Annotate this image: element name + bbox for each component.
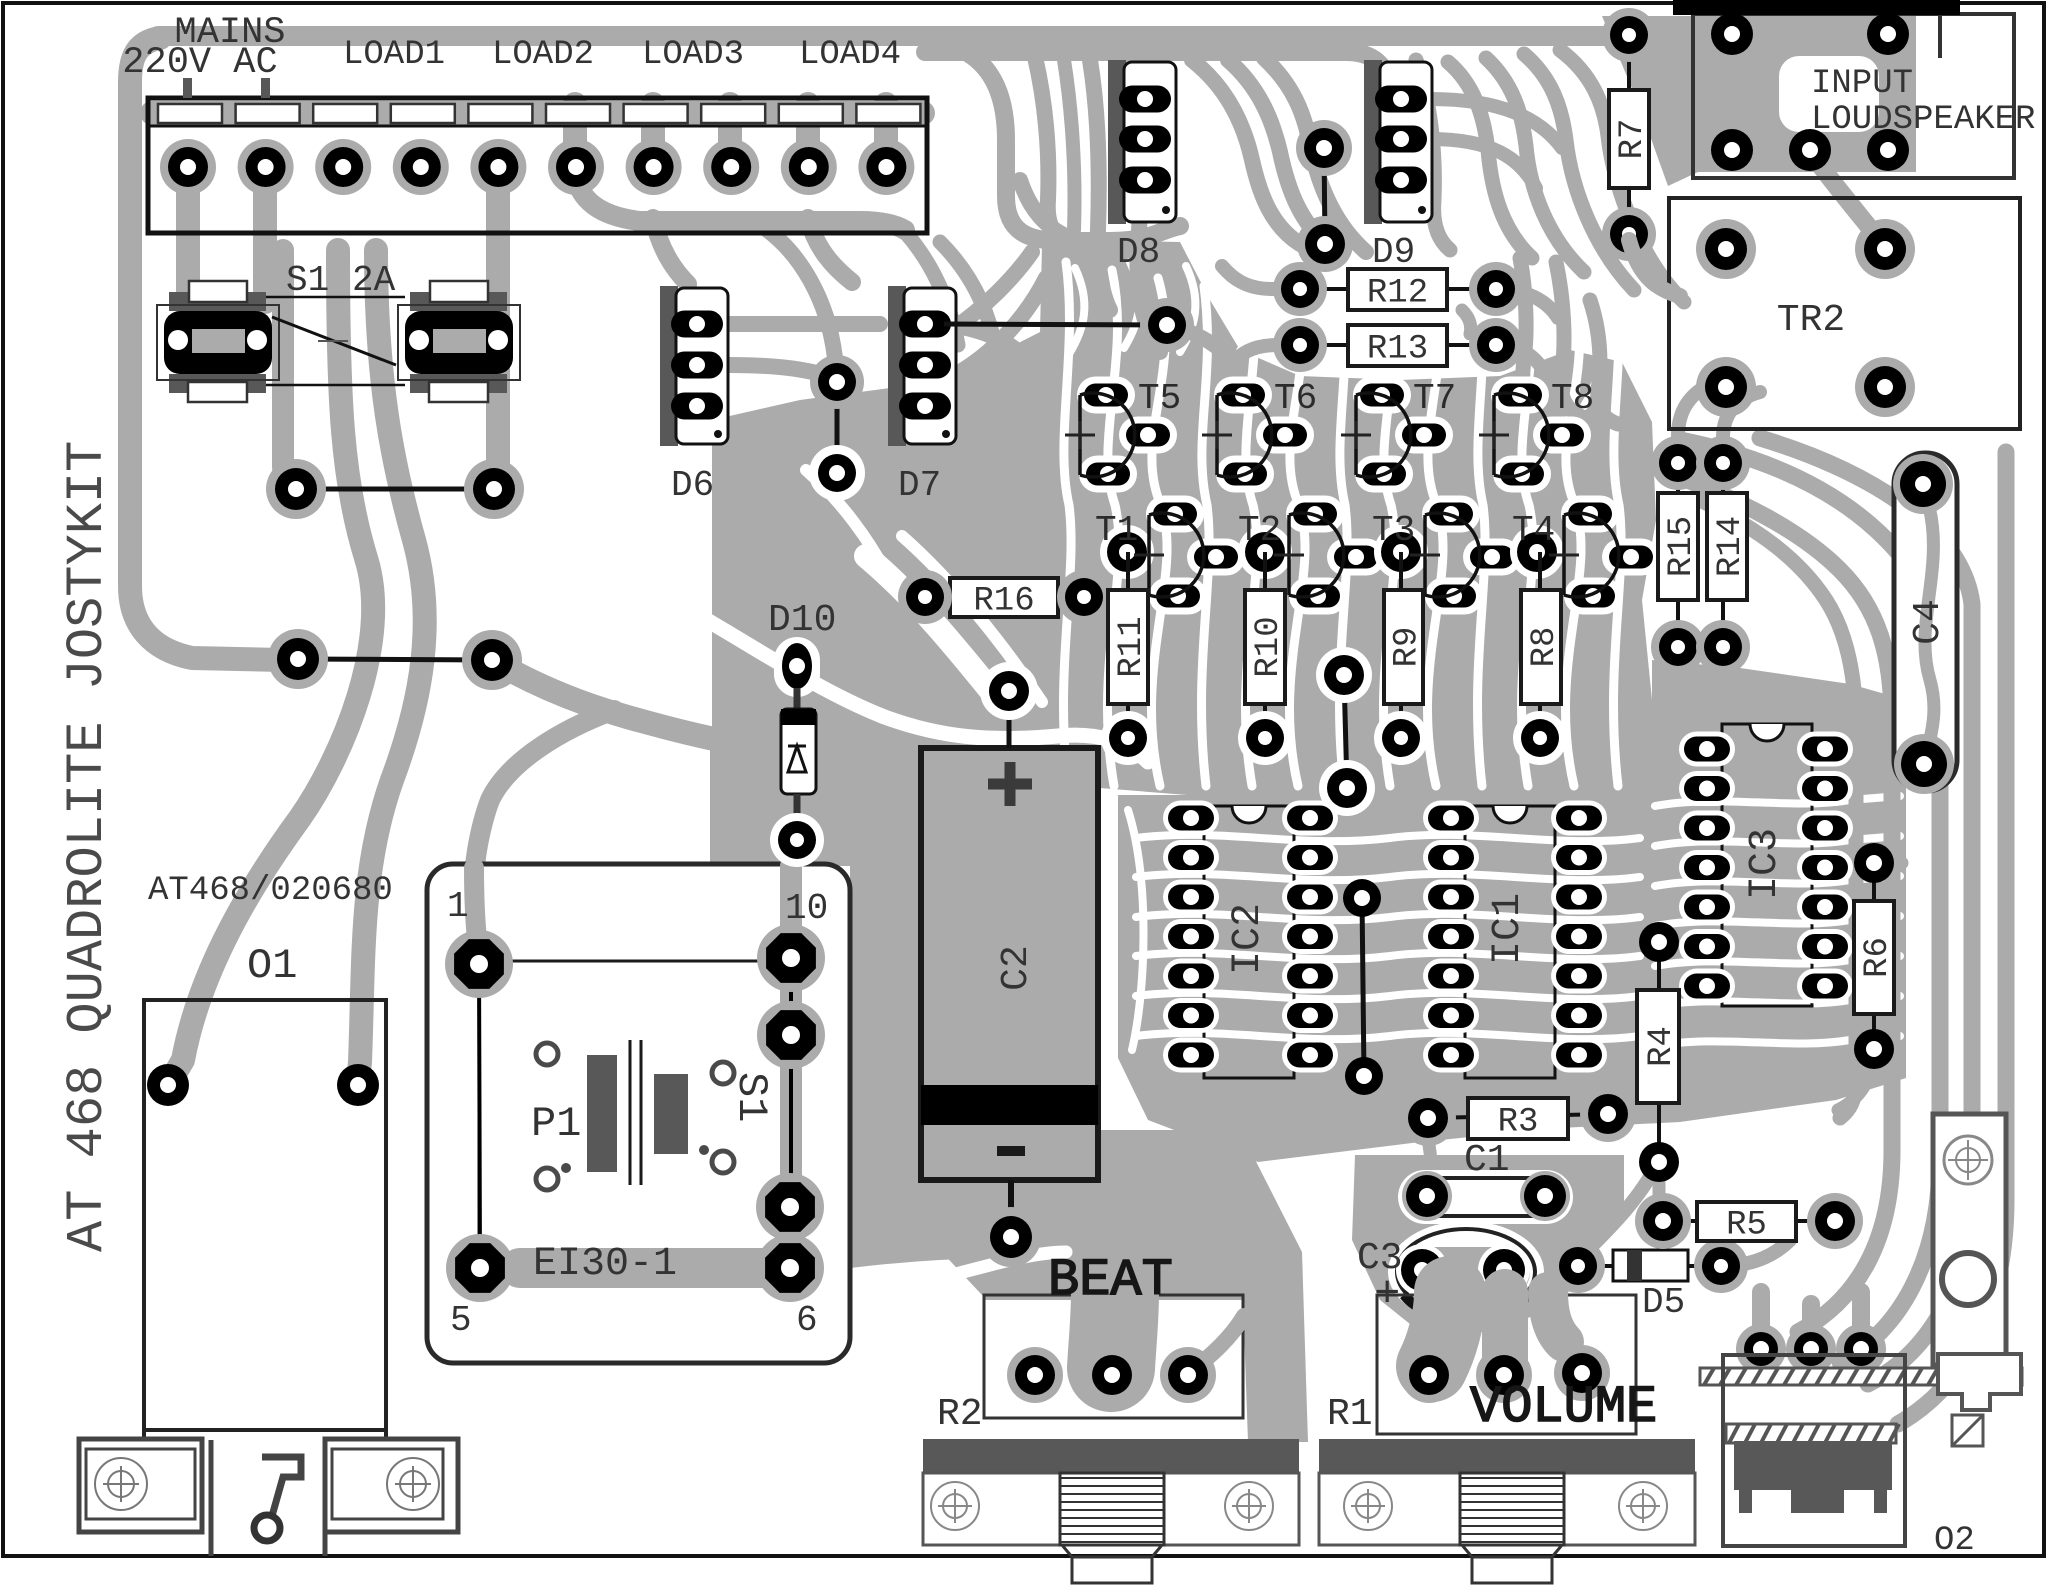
svg-text:C4: C4 bbox=[1907, 599, 1950, 645]
wire R4 bottom stub bbox=[1653, 1162, 1666, 1196]
copper pour bottom center bbox=[868, 1130, 1308, 1442]
svg-text:D5: D5 bbox=[1642, 1282, 1685, 1323]
wire transformer bottom band to C2 pad bbox=[520, 1246, 770, 1290]
svg-text:IC3: IC3 bbox=[1743, 828, 1788, 900]
wire band drop a bbox=[1035, 57, 1072, 242]
triac D9 bbox=[1364, 60, 1382, 224]
transformer inner pour bits bbox=[474, 868, 479, 956]
wire terminal loop right bbox=[928, 40, 1180, 241]
svg-text:R3: R3 bbox=[1498, 1104, 1539, 1142]
diode D10 bbox=[774, 637, 820, 697]
svg-text:LOAD3: LOAD3 bbox=[642, 36, 744, 74]
mains tick marks bbox=[183, 78, 192, 98]
wire long sweep to O1 pad B bbox=[358, 250, 425, 1082]
transformer core lines bbox=[629, 1040, 632, 1185]
wire C4 through trace bbox=[1918, 470, 1939, 780]
svg-text:1: 1 bbox=[447, 886, 469, 927]
strain relief clip bbox=[262, 1457, 301, 1516]
wire R13 right stub bbox=[1496, 345, 1548, 380]
capacitor C1 bbox=[1398, 1170, 1573, 1224]
resistor R5 bbox=[1663, 1219, 1835, 1223]
white channel below C2 pad bbox=[852, 1252, 1066, 1300]
svg-text:S1: S1 bbox=[286, 260, 329, 301]
capacitor C3 bbox=[1388, 1221, 1544, 1323]
resistor R10 bbox=[1263, 552, 1267, 590]
fuse 2A clip bbox=[410, 292, 507, 311]
wire R15 R14 pad stubs bbox=[1678, 382, 1714, 463]
svg-text:IC1: IC1 bbox=[1486, 893, 1531, 965]
svg-text:R7: R7 bbox=[1614, 119, 1652, 160]
copper pour left of C2 bbox=[710, 730, 920, 1240]
jack O2 body bbox=[1723, 1355, 1905, 1546]
copper pour right of central bbox=[1652, 660, 1906, 795]
svg-text:R13: R13 bbox=[1367, 331, 1428, 369]
wire pad5 down to jumper bbox=[494, 182, 498, 487]
wire right of D9 nest 1 bbox=[1448, 62, 1532, 258]
solder lug right bbox=[325, 1439, 458, 1532]
svg-text:R9: R9 bbox=[1389, 627, 1427, 668]
wire bus to D6 top bbox=[653, 218, 688, 284]
wire right bundle 2 bbox=[1680, 440, 1940, 1362]
svg-text:220V AC: 220V AC bbox=[122, 42, 277, 84]
triac D6 bbox=[660, 286, 678, 446]
fuse outline box bbox=[266, 296, 405, 299]
wire to D7 link pad bbox=[762, 226, 835, 358]
thyristor T5 bbox=[1077, 377, 1135, 414]
fuse diagonal bbox=[272, 317, 396, 365]
transformer primary bar P1 bbox=[587, 1055, 617, 1172]
C2 electrolytic capacitor body bbox=[921, 748, 1098, 1180]
svg-text:D10: D10 bbox=[768, 599, 836, 642]
svg-text:VOLUME: VOLUME bbox=[1470, 1378, 1657, 1437]
svg-text:R8: R8 bbox=[1526, 627, 1564, 668]
resistor R14 bbox=[1721, 463, 1725, 493]
wire right bundle 3 bbox=[1760, 438, 1972, 1384]
thyristor T7 bbox=[1353, 377, 1411, 414]
wire R12 left stub bbox=[1222, 266, 1300, 289]
wire through S1 region a bbox=[283, 250, 294, 488]
white wedge left of R16 bbox=[866, 556, 1000, 702]
svg-text:O2: O2 bbox=[1934, 1522, 1975, 1560]
svg-text:R1: R1 bbox=[1327, 1393, 1373, 1436]
resistor R7 bbox=[1627, 35, 1631, 234]
wire D8-D9 weave 2 bbox=[1228, 60, 1330, 248]
thyristor T2 bbox=[1286, 496, 1344, 533]
wire bus to D7 top bbox=[808, 218, 852, 282]
svg-text:S1: S1 bbox=[727, 1072, 775, 1122]
wire top-left corner leg bbox=[130, 38, 282, 660]
resistor R12 bbox=[1300, 287, 1496, 291]
transformer pads bbox=[479, 964, 480, 1268]
wire left of D8 strand bbox=[1064, 60, 1075, 230]
svg-text:LOAD1: LOAD1 bbox=[343, 36, 445, 74]
jumper D7 to D8 region bbox=[944, 324, 1167, 325]
copper pour IC region bbox=[1118, 795, 1906, 1162]
svg-text:D7: D7 bbox=[898, 465, 941, 506]
svg-text:T3: T3 bbox=[1372, 510, 1415, 551]
wire D5 to R5 area bbox=[1721, 1240, 1790, 1266]
resistor R4 bbox=[1657, 942, 1661, 990]
resistor R11 bbox=[1126, 552, 1130, 590]
wire D7 fan up bbox=[952, 252, 1032, 330]
svg-text:T2: T2 bbox=[1238, 510, 1281, 551]
wire R13 left stub bbox=[1232, 345, 1300, 364]
switch S1 clip bbox=[169, 292, 266, 311]
svg-text:R11: R11 bbox=[1113, 616, 1151, 677]
svg-text:R12: R12 bbox=[1367, 275, 1428, 313]
capacitor C4 bbox=[1894, 453, 1957, 791]
resistor R8 bbox=[1538, 552, 1542, 590]
svg-text:R5: R5 bbox=[1726, 1207, 1767, 1245]
resistor R3 bbox=[1428, 1114, 1608, 1118]
O1 wires to lugs bbox=[142, 1430, 146, 1443]
wire TR2 diagonal bbox=[1810, 152, 1885, 247]
wire D8-D9 weave 3 bbox=[1264, 58, 1366, 252]
thyristor T8 bbox=[1491, 377, 1549, 414]
svg-text:C1: C1 bbox=[1464, 1139, 1510, 1182]
svg-text:T4: T4 bbox=[1512, 510, 1555, 551]
wire D9 bar gap strand bbox=[1416, 60, 1450, 250]
wire D7 top to right bbox=[944, 324, 1030, 360]
wire band drop c bbox=[1130, 60, 1160, 352]
jack O2 hatched bar bbox=[1700, 1368, 2022, 1385]
wire jumper right to pour bbox=[492, 660, 760, 748]
svg-text:5: 5 bbox=[450, 1300, 472, 1341]
transformer pin circles bbox=[536, 1043, 558, 1065]
wire band drop b bbox=[1090, 60, 1110, 310]
wire D8-D9 weave 1 bbox=[1192, 60, 1300, 244]
transformer core outline bbox=[479, 961, 791, 1268]
mid jumper link bbox=[1344, 675, 1347, 788]
svg-text:R14: R14 bbox=[1712, 516, 1750, 577]
svg-text:R16: R16 bbox=[973, 583, 1034, 621]
svg-text:EI30-1: EI30-1 bbox=[533, 1242, 677, 1287]
wire C1 right to C3 bbox=[1512, 1218, 1545, 1262]
link near D7 bbox=[835, 382, 840, 473]
svg-text:AT 468 QUADROLITE JOSTYKIT: AT 468 QUADROLITE JOSTYKIT bbox=[58, 441, 117, 1252]
white channel above C2 bbox=[700, 616, 1148, 762]
O2 trio pads bbox=[1736, 1324, 1786, 1374]
terminal block pads bbox=[160, 139, 216, 195]
wire second band to D9 bbox=[925, 52, 1388, 92]
wire right of D9 nest 0 bbox=[1560, 50, 1684, 302]
IC3 dip14 bbox=[1722, 724, 1812, 1006]
pot VOLUME body bbox=[1319, 1439, 1695, 1473]
white lanes IC region bbox=[1136, 835, 1640, 841]
thyristor T4 bbox=[1561, 496, 1619, 533]
white lanes central pour bbox=[1064, 262, 1072, 786]
wire R7 bottom to TR2 bbox=[1629, 240, 1680, 296]
pot BEAT body bbox=[923, 1439, 1299, 1473]
copper pour around C1 C3 bbox=[1352, 1155, 1624, 1332]
link near D9 bbox=[1324, 148, 1325, 244]
copper pour top-right triangle under R7 bbox=[1602, 16, 1916, 186]
svg-text:D6: D6 bbox=[671, 465, 714, 506]
resistor R16 bbox=[925, 595, 1084, 599]
svg-text:AT468/020680: AT468/020680 bbox=[148, 872, 393, 910]
wire top supply band bbox=[158, 26, 1640, 46]
copper pour central bbox=[712, 240, 1656, 800]
wire pad1 down bbox=[176, 180, 200, 302]
jack O2 side tab bbox=[1938, 1354, 2021, 1410]
screw terminal O2 body bbox=[1933, 1114, 2006, 1365]
svg-text:D8: D8 bbox=[1117, 232, 1160, 273]
resistor R15 bbox=[1676, 463, 1680, 493]
svg-text:T6: T6 bbox=[1274, 378, 1317, 419]
wire R4 to D5 bbox=[1580, 1160, 1659, 1258]
svg-text:R4: R4 bbox=[1643, 1026, 1681, 1067]
terminal block connector bbox=[152, 101, 923, 125]
wire C1 C3 link bbox=[1421, 1218, 1427, 1262]
C2 pads bbox=[1007, 700, 1012, 748]
connector INPUT LOUDSPEAKER bbox=[1697, 16, 1912, 172]
wire under-block bus bbox=[575, 172, 905, 230]
wire left of D8 down bbox=[1020, 180, 1070, 238]
wire D7 fan strands bbox=[905, 232, 958, 345]
svg-text:IC2: IC2 bbox=[1226, 903, 1271, 975]
potentiometer R2 BEAT box bbox=[984, 1295, 1243, 1418]
white lanes diag top bbox=[1069, 268, 1084, 354]
resistor R6 bbox=[1872, 863, 1876, 901]
svg-text:6: 6 bbox=[796, 1300, 818, 1341]
jumper wire W2 bbox=[298, 659, 492, 660]
wire O2 pad stubs bbox=[1752, 1292, 1770, 1348]
svg-text:C2: C2 bbox=[995, 945, 1038, 991]
svg-text:T8: T8 bbox=[1551, 378, 1594, 419]
triac D7 bbox=[888, 286, 906, 446]
wire right bundle 1 bbox=[1662, 470, 1892, 1332]
wire D9 pads to right bbox=[1430, 99, 1562, 148]
IC1 dip14 bbox=[1465, 806, 1555, 1078]
wire right of D9 nest 2 bbox=[1486, 58, 1584, 272]
white lane left IC2 bbox=[1128, 810, 1144, 1050]
wire R3 stubs bbox=[1421, 1062, 1435, 1116]
wire into transformer pin10 bbox=[791, 830, 892, 868]
svg-text:T1: T1 bbox=[1095, 510, 1138, 551]
IC2 dip14 bbox=[1204, 806, 1294, 1078]
svg-text:2A: 2A bbox=[352, 260, 396, 301]
transformer TR2 box bbox=[1669, 198, 2020, 429]
svg-text:R6: R6 bbox=[1859, 937, 1897, 978]
wire into transformer pin1 bbox=[475, 710, 614, 866]
jumper wire W1 bbox=[296, 487, 494, 492]
transformer module box bbox=[427, 864, 850, 1363]
svg-text:INPUT: INPUT bbox=[1811, 65, 1913, 103]
svg-text:LOAD2: LOAD2 bbox=[492, 36, 594, 74]
wire stubs terminal pads up bbox=[563, 104, 587, 167]
svg-text:R2: R2 bbox=[937, 1393, 983, 1436]
diode D5 bbox=[1578, 1264, 1721, 1268]
svg-text:LOAD4: LOAD4 bbox=[799, 36, 901, 74]
thyristor T1 bbox=[1146, 496, 1204, 533]
svg-text:TR2: TR2 bbox=[1777, 299, 1845, 342]
svg-text:R10: R10 bbox=[1250, 616, 1288, 677]
thyristor T3 bbox=[1422, 496, 1480, 533]
wire pad2 down bbox=[253, 180, 277, 302]
svg-text:D9: D9 bbox=[1372, 232, 1415, 273]
wire long sweep to O1 pad A bbox=[170, 250, 373, 1082]
resistor R13 bbox=[1300, 343, 1496, 347]
IC2 side link bbox=[1362, 898, 1364, 1076]
svg-text:LOUDSPEAKER: LOUDSPEAKER bbox=[1811, 101, 2035, 139]
thyristor T6 bbox=[1214, 377, 1272, 414]
triac D8 bbox=[1108, 60, 1126, 224]
wire R12 right stub bbox=[1496, 289, 1558, 318]
wire R6 stubs bbox=[1874, 857, 1902, 870]
potentiometer R1 VOLUME box bbox=[1377, 1295, 1636, 1434]
svg-text:T7: T7 bbox=[1413, 378, 1456, 419]
wire D6 pads to D7 bbox=[730, 316, 880, 332]
solder lug left bbox=[79, 1439, 202, 1532]
connector O1 box bbox=[144, 1000, 386, 1430]
svg-text:T5: T5 bbox=[1138, 378, 1181, 419]
wire right of D9 nest 3 bbox=[1524, 54, 1634, 290]
wire right bundle 4 bbox=[1898, 452, 2006, 1424]
resistor R9 bbox=[1399, 552, 1403, 590]
wire C1 left to R3 bbox=[1428, 1138, 1433, 1196]
wire pad1167 to pour bbox=[1167, 325, 1238, 368]
svg-text:R15: R15 bbox=[1663, 516, 1701, 577]
svg-text:P1: P1 bbox=[531, 1100, 581, 1148]
svg-text:BEAT: BEAT bbox=[1048, 1251, 1173, 1310]
wire R12R13 gap verticals bbox=[1462, 310, 1471, 334]
svg-text:O1: O1 bbox=[247, 942, 297, 990]
svg-text:10: 10 bbox=[785, 888, 828, 929]
transformer secondary bar S1 bbox=[654, 1074, 688, 1154]
